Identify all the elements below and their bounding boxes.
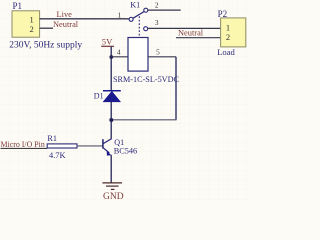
svg-text:1: 1 [118, 11, 122, 20]
value 4.7K [49, 151, 66, 160]
pin number 3 (K1) [155, 18, 159, 27]
wire coil pin 5 to right rail [148, 56, 176, 58]
svg-text:D1: D1 [94, 92, 104, 101]
svg-text:2: 2 [226, 32, 230, 42]
transistor Q1 emitter lead [103, 148, 109, 153]
value BC546 [114, 147, 138, 156]
wire node to coil pin 4 [111, 56, 128, 58]
ground label GND [103, 192, 124, 202]
connector P1 [12, 11, 40, 37]
relay coil body K1 [128, 38, 148, 72]
svg-text:Live: Live [57, 10, 73, 19]
diode D1 cathode bar [103, 90, 121, 92]
wire collector node down to Q1 [110, 120, 112, 139]
net label Micro I/O Pin [1, 140, 45, 149]
net label Neutral (right) [178, 29, 204, 38]
wire Live (P1 pin1 to K1 pin1) [40, 18, 129, 20]
svg-text:5V: 5V [102, 37, 113, 47]
junction node (5V / coil pin4) [109, 55, 113, 59]
pin number 1 (P2) [226, 23, 230, 33]
svg-text:4.7K: 4.7K [49, 151, 66, 160]
svg-text:2: 2 [30, 24, 34, 34]
pin number 1 (K1) [118, 11, 122, 20]
ground bar 1 [102, 182, 122, 184]
transistor Q1 base bar [102, 139, 104, 148]
svg-text:K1: K1 [130, 1, 140, 10]
relay K1 pin 1 contact circle [129, 17, 133, 21]
ground bar 2 [106, 185, 119, 187]
svg-text:4: 4 [117, 48, 121, 57]
label Load [217, 47, 235, 57]
svg-text:R1: R1 [47, 134, 57, 143]
wire D1 anode down to node [110, 102, 112, 120]
designator P1 [13, 1, 23, 11]
wire K1 pin 3 to P2 pin 1 [148, 27, 221, 29]
svg-text:3: 3 [155, 18, 159, 27]
svg-text:230V, 50Hz supply: 230V, 50Hz supply [9, 40, 82, 50]
wire right rail down [175, 57, 177, 120]
wire 5V bar down to node [110, 47, 112, 91]
net label Neutral (left) [53, 20, 79, 29]
pin number 4 (coil) [117, 48, 121, 57]
svg-text:SRM-1C-SL-5VDC: SRM-1C-SL-5VDC [113, 75, 180, 84]
power port 5V label [102, 37, 113, 47]
designator R1 [47, 134, 57, 143]
designator Q1 [114, 138, 124, 147]
label 230V, 50Hz supply [9, 40, 82, 50]
junction node (collector / D1 / coil return) [109, 118, 113, 122]
pin number 2 (P2) [226, 32, 230, 42]
wire R1 to Q1 base [77, 145, 102, 147]
svg-text:2: 2 [155, 1, 159, 10]
svg-text:BC546: BC546 [114, 147, 138, 156]
diode D1 body [103, 91, 120, 101]
svg-text:Q1: Q1 [114, 138, 124, 147]
wire input to R1 [1, 147, 48, 149]
svg-text:1: 1 [30, 14, 34, 24]
relay K1 pin 3 contact circle [144, 27, 148, 31]
connector P2 [221, 18, 246, 47]
pin number 5 (coil) [156, 47, 160, 56]
transistor Q1 emitter arrow [107, 150, 112, 155]
relay K1 pin 2 contact circle [144, 8, 148, 12]
pin number 2 (P1) [30, 24, 34, 34]
wire bottom horizontal to collector node [111, 119, 176, 121]
pin number 2 (K1) [155, 1, 159, 10]
wire Neutral stub (P1 pin2) [40, 27, 53, 29]
svg-text:Load: Load [217, 47, 235, 57]
resistor R1 body [47, 144, 77, 148]
svg-text:P2: P2 [218, 9, 228, 19]
svg-text:Neutral: Neutral [53, 20, 79, 29]
relay K1 switch arm [133, 12, 144, 19]
ground bar 3 [111, 188, 115, 190]
designator D1 [94, 92, 104, 101]
designator K1 [130, 1, 140, 10]
svg-text:GND: GND [103, 192, 124, 201]
designator P2 [218, 9, 228, 19]
value label SRM-1C-SL-5VDC [113, 75, 180, 84]
pin number 1 (P1) [30, 14, 34, 24]
wire Q1 emitter down to ground [110, 155, 112, 183]
svg-text:P1: P1 [13, 1, 23, 11]
svg-text:Neutral: Neutral [178, 29, 204, 38]
power port 5V bar [101, 45, 114, 47]
wire from K1 pin 2 (NC, dangling) [148, 9, 181, 11]
wire to P2 pin 2 [176, 37, 221, 39]
transistor Q1 collector lead [103, 139, 111, 144]
svg-text:5: 5 [156, 47, 160, 56]
svg-text:1: 1 [226, 23, 230, 33]
net label Live [57, 10, 73, 19]
relay K1 actuation dashed link [138, 16, 140, 37]
sheet background [0, 0, 250, 201]
